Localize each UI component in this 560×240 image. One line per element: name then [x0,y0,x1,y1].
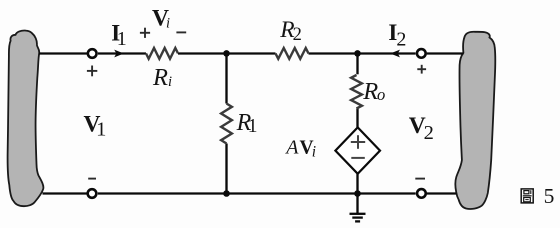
svg-text:1: 1 [117,28,127,50]
svg-text:2: 2 [293,25,302,45]
svg-text:A: A [284,137,299,159]
svg-text:i: i [312,144,316,161]
svg-text:2: 2 [396,29,406,51]
svg-text:2: 2 [424,122,434,144]
svg-text:R: R [362,78,378,105]
svg-text:R: R [152,64,168,91]
svg-text:i: i [166,15,170,31]
svg-text:o: o [377,85,385,104]
svg-text:1: 1 [96,118,106,140]
svg-text:5: 5 [544,184,555,208]
svg-text:i: i [168,74,172,90]
svg-text:1: 1 [248,116,258,137]
